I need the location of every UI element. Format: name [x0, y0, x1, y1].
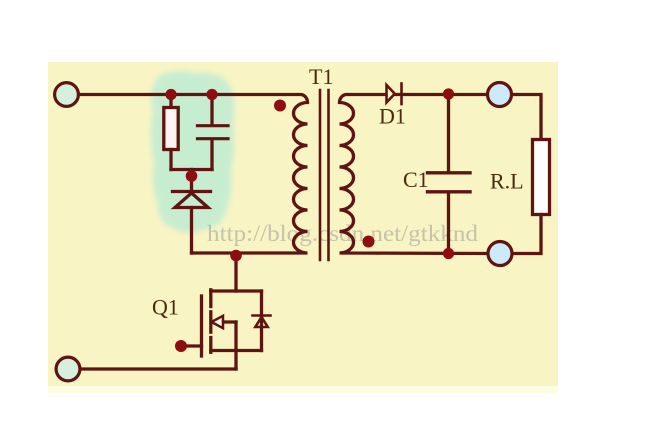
svg-text:C1: C1: [403, 167, 429, 192]
svg-text:Q1: Q1: [152, 295, 179, 320]
svg-text:R.L: R.L: [490, 169, 524, 194]
svg-text:http://blog.csdn.net/gtkknd: http://blog.csdn.net/gtkknd: [207, 221, 479, 246]
svg-text:T1: T1: [309, 64, 333, 89]
svg-text:D1: D1: [379, 104, 406, 129]
